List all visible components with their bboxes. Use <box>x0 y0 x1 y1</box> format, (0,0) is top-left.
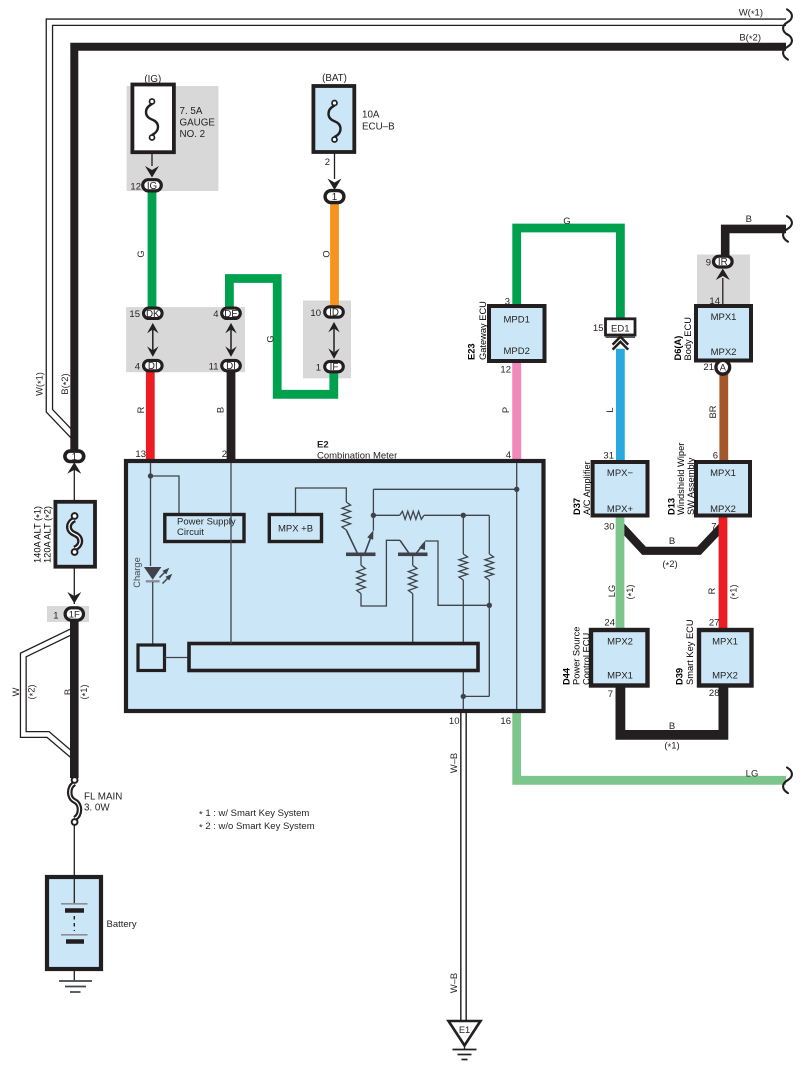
svg-text:1: 1 <box>53 611 58 622</box>
svg-text:D44: D44 <box>561 667 571 685</box>
svg-text:Charge: Charge <box>132 557 142 588</box>
svg-text:12: 12 <box>500 365 511 376</box>
svg-text:BR: BR <box>708 405 718 418</box>
svg-text:R: R <box>136 406 146 413</box>
svg-text:IG: IG <box>147 181 157 192</box>
svg-text:Battery: Battery <box>107 919 137 930</box>
svg-text:6: 6 <box>713 451 718 462</box>
svg-text:27: 27 <box>709 618 720 629</box>
svg-text:(*​1): (*​1) <box>625 584 637 599</box>
svg-text:24: 24 <box>604 618 615 629</box>
svg-text:MPD2: MPD2 <box>503 346 529 357</box>
svg-text:2: 2 <box>325 157 330 168</box>
svg-text:Control ECU: Control ECU <box>581 633 591 685</box>
svg-text:D13: D13 <box>666 498 676 515</box>
svg-text:D37: D37 <box>572 498 582 515</box>
svg-text:B: B <box>215 407 225 413</box>
svg-text:IR: IR <box>718 257 728 268</box>
svg-text:NO. 2: NO. 2 <box>180 129 206 140</box>
svg-text:28: 28 <box>709 688 720 699</box>
svg-text:MPX−: MPX− <box>607 468 634 479</box>
svg-text:(BAT): (BAT) <box>322 73 347 84</box>
svg-text:Circuit: Circuit <box>177 527 204 538</box>
svg-text:30: 30 <box>604 522 615 533</box>
svg-text:LG: LG <box>607 585 617 597</box>
svg-text:Power Supply: Power Supply <box>177 516 236 527</box>
svg-text:Power Source: Power Source <box>571 627 581 685</box>
svg-text:1: 1 <box>72 452 77 463</box>
svg-text:L: L <box>605 407 615 412</box>
svg-text:W–B: W–B <box>449 753 459 773</box>
svg-text:E23: E23 <box>466 343 476 360</box>
svg-text:MPX1: MPX1 <box>607 671 633 682</box>
svg-text:*​ 2 : w/o Smart Key System: *​ 2 : w/o Smart Key System <box>199 821 315 834</box>
svg-text:(*​1): (*​1) <box>728 584 740 599</box>
svg-text:GAUGE: GAUGE <box>180 118 216 129</box>
svg-text:W(*​1): W(*​1) <box>739 8 763 21</box>
svg-text:D39: D39 <box>674 668 684 685</box>
svg-text:MPD1: MPD1 <box>503 315 529 326</box>
svg-text:DK: DK <box>146 309 160 320</box>
svg-text:MPX2: MPX2 <box>711 347 737 358</box>
svg-text:1F: 1F <box>69 609 80 620</box>
svg-text:MPX2: MPX2 <box>607 637 633 648</box>
svg-text:B(*​2): B(*​2) <box>739 33 761 46</box>
svg-text:1: 1 <box>332 192 337 203</box>
svg-text:10: 10 <box>310 308 321 319</box>
svg-text:2: 2 <box>222 449 227 460</box>
svg-text:3. 0W: 3. 0W <box>84 803 110 814</box>
svg-text:O: O <box>322 250 332 257</box>
svg-text:A/C Amplifier: A/C Amplifier <box>582 461 592 515</box>
svg-text:MPX1: MPX1 <box>711 312 737 323</box>
svg-text:1: 1 <box>316 363 321 374</box>
svg-text:LG: LG <box>746 769 759 780</box>
svg-text:W–B: W–B <box>449 973 459 993</box>
svg-text:4: 4 <box>135 362 140 373</box>
svg-text:G: G <box>563 216 570 227</box>
svg-text:G: G <box>265 335 275 342</box>
svg-text:B: B <box>746 214 752 225</box>
svg-text:12: 12 <box>130 182 141 193</box>
svg-text:14: 14 <box>709 296 720 307</box>
svg-text:(*​2): (*​2) <box>26 684 38 699</box>
svg-text:Smart Key ECU: Smart Key ECU <box>685 619 695 685</box>
svg-text:21: 21 <box>703 362 714 373</box>
svg-text:13: 13 <box>135 449 146 460</box>
svg-text:MPX1: MPX1 <box>712 637 738 648</box>
svg-text:7: 7 <box>711 522 716 533</box>
svg-text:A: A <box>720 363 727 373</box>
svg-text:Body ECU: Body ECU <box>683 317 693 360</box>
svg-text:MPX2: MPX2 <box>712 671 738 682</box>
svg-text:B: B <box>669 721 675 732</box>
svg-text:E2: E2 <box>317 440 329 451</box>
svg-text:Windshield Wiper: Windshield Wiper <box>676 443 686 515</box>
svg-text:IF: IF <box>330 362 339 373</box>
svg-text:*​ 1 : w/ Smart Key System: *​ 1 : w/ Smart Key System <box>199 808 309 821</box>
svg-text:Combination Meter: Combination Meter <box>317 451 397 462</box>
svg-text:E1: E1 <box>459 1025 470 1035</box>
svg-text:ECU–B: ECU–B <box>362 122 395 133</box>
svg-text:ED1: ED1 <box>611 323 629 334</box>
svg-text:B: B <box>669 536 675 547</box>
svg-text:(IG): (IG) <box>144 74 161 85</box>
svg-text:G: G <box>136 250 146 257</box>
svg-text:120A ALT (*​2): 120A ALT (*​2) <box>42 506 54 563</box>
svg-text:3: 3 <box>505 297 510 308</box>
svg-text:D6(A): D6(A) <box>673 336 683 361</box>
svg-text:MPX +B: MPX +B <box>278 524 313 535</box>
svg-text:DE: DE <box>224 309 238 320</box>
svg-text:10: 10 <box>449 716 460 727</box>
svg-text:7: 7 <box>608 689 613 700</box>
svg-text:15: 15 <box>129 309 140 320</box>
svg-text:MPX2: MPX2 <box>710 504 736 515</box>
svg-text:SW Assembly: SW Assembly <box>686 457 696 515</box>
svg-text:10A: 10A <box>362 110 380 121</box>
svg-text:DI: DI <box>226 361 236 372</box>
svg-text:B: B <box>63 689 73 695</box>
svg-text:(*​1): (*​1) <box>79 684 91 699</box>
svg-text:ID: ID <box>329 308 339 319</box>
svg-text:(*​2): (*​2) <box>662 559 677 572</box>
svg-text:4: 4 <box>213 309 218 320</box>
svg-text:W: W <box>11 687 21 696</box>
svg-text:7. 5A: 7. 5A <box>180 106 203 117</box>
svg-text:11: 11 <box>209 362 219 373</box>
svg-text:Gateway ECU: Gateway ECU <box>478 301 488 360</box>
svg-text:FL MAIN: FL MAIN <box>84 792 122 803</box>
svg-text:DI: DI <box>148 361 158 372</box>
svg-text:31: 31 <box>603 451 614 462</box>
svg-text:4: 4 <box>506 450 511 461</box>
svg-text:9: 9 <box>706 258 711 269</box>
svg-text:MPX+: MPX+ <box>607 504 634 515</box>
svg-text:15: 15 <box>593 323 604 334</box>
svg-text:(*​1): (*​1) <box>664 741 679 754</box>
svg-text:P: P <box>501 407 511 413</box>
svg-text:MPX1: MPX1 <box>710 468 736 479</box>
svg-text:R: R <box>707 587 717 594</box>
svg-text:16: 16 <box>500 716 511 727</box>
svg-text:B(*​2): B(*​2) <box>60 373 72 394</box>
svg-text:W(*​1): W(*​1) <box>34 372 46 396</box>
